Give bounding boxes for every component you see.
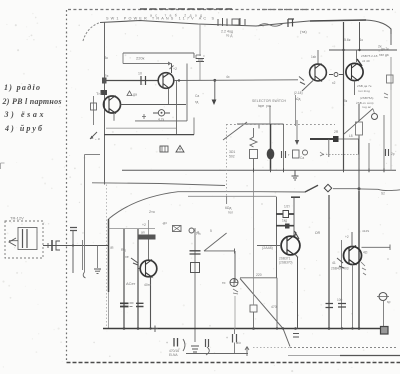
paper mark left edge — [1, 163, 5, 169]
input coupling cap — [70, 228, 77, 231]
capacitor right — [386, 149, 389, 156]
svg-text:10: 10 — [138, 72, 142, 76]
svg-text:Rд: Rд — [121, 248, 126, 252]
svg-text:(2А48): (2А48) — [262, 246, 273, 250]
svg-text:Са: Са — [195, 94, 199, 98]
svg-text:L8: L8 — [349, 134, 353, 138]
coupling between Q6 Q7 — [334, 73, 338, 77]
svg-text:220к: 220к — [136, 56, 145, 61]
svg-text:+: + — [226, 336, 228, 340]
resistor R21 zigzag — [250, 128, 257, 147]
svg-text:2R: 2R — [334, 130, 339, 134]
dotted y154.5 — [326, 154, 359, 156]
electrolytic C21 dark — [270, 124, 272, 170]
svg-text:то: то — [222, 281, 226, 285]
top ticks row — [109, 228, 156, 230]
Q7 top lead — [356, 50, 358, 62]
volume pot column — [93, 96, 95, 125]
wire: feedback arrow line — [123, 53, 172, 64]
bottom mid electro + jack — [174, 338, 178, 347]
transistor Q5 — [344, 247, 362, 265]
below bus cap — [293, 334, 299, 338]
svg-text:2р: 2р — [391, 152, 395, 156]
wire: Q2 collector up — [171, 64, 173, 74]
wire: y50 row — [329, 49, 397, 51]
pilot lamp circle — [372, 114, 378, 120]
cartridge — [18, 228, 37, 250]
svg-text:←с: ←с — [94, 136, 100, 141]
transistor Q1 — [104, 96, 121, 113]
base marks Q3 — [131, 258, 138, 265]
svg-text:2SB75 2-18: 2SB75 2-18 — [361, 54, 378, 58]
border left dashed — [66, 10, 68, 362]
svg-text:2SB405 403: 2SB405 403 — [331, 267, 349, 271]
paper speckle — [129, 57, 131, 59]
connector P1 on bus — [288, 19, 294, 27]
right edge column — [390, 34, 392, 45]
svg-text:ѕр: ѕр — [387, 300, 391, 304]
svg-text:+: + — [166, 341, 168, 345]
Q7 emitter — [354, 81, 356, 95]
border bottom dashed — [67, 362, 400, 364]
diode D1 — [158, 110, 164, 116]
resistor R23 — [293, 150, 300, 158]
Q4 top lead arrow — [295, 231, 300, 239]
svg-text:4) йруб: 4) йруб — [4, 124, 43, 133]
selector output arrow — [296, 120, 298, 141]
wire: v358 stub — [358, 139, 360, 155]
wire: mid bus y170 — [122, 169, 396, 171]
svg-text:(2-18): (2-18) — [294, 91, 303, 95]
speaker comp right — [379, 293, 387, 301]
Q6 top lead — [317, 50, 319, 64]
svg-text:1sb: 1sb — [311, 55, 316, 59]
border top dashed — [68, 9, 393, 11]
svg-text:41: 41 — [332, 261, 336, 265]
wire v369 — [368, 143, 370, 170]
wire: box mid — [106, 127, 176, 129]
svg-text:те д: те д — [226, 34, 232, 38]
svg-text:Са: Са — [300, 156, 304, 160]
svg-text:2) PB l партноѕ: 2) PB l партноѕ — [2, 97, 62, 106]
svg-text:/R: /R — [110, 246, 114, 250]
switch wiper S2b — [226, 196, 228, 204]
svg-text:тел: тел — [228, 211, 233, 215]
wire: bus y184.5 — [92, 183, 225, 186]
capacitor C22 — [283, 124, 285, 170]
tiny corner glyphs right of box — [196, 55, 203, 60]
svg-text:470: 470 — [271, 305, 277, 309]
svg-text:5к: 5к — [344, 99, 348, 103]
junction dots y50 row — [342, 49, 344, 51]
Q4 emitter — [295, 254, 298, 258]
junction ticks on mid bus — [254, 168, 385, 173]
svg-text:+2: +2 — [345, 235, 349, 239]
svg-text:тел 2год: тел 2год — [358, 89, 370, 93]
svg-text:S2: S2 — [381, 192, 385, 196]
svg-text:2то: 2то — [149, 210, 155, 214]
wire squiggle on bus — [258, 24, 283, 27]
svg-text:TR-12V: TR-12V — [10, 216, 24, 221]
svg-text:тд: тд — [195, 100, 198, 104]
svg-text:(2SB75А): (2SB75А) — [360, 96, 373, 100]
wire: network top — [237, 123, 284, 125]
switch diagonal right — [344, 109, 373, 135]
capacitor C4 column x200 — [199, 24, 201, 56]
wire: box right edge — [176, 81, 178, 135]
wire: selector feed drop — [214, 80, 216, 100]
Q3 emitter — [150, 277, 152, 329]
svg-text:1) радіо: 1) радіо — [4, 83, 40, 92]
svg-text:х2: х2 — [332, 81, 336, 85]
svg-text:ап: ап — [141, 231, 145, 235]
svg-text:tape pos: tape pos — [258, 104, 272, 108]
wire: row continues right — [174, 79, 298, 82]
wire: Q1 base row — [121, 104, 187, 106]
wire: input row y80 — [104, 80, 158, 82]
resistor dark bar — [138, 235, 156, 240]
svg-text:100: 100 — [337, 298, 343, 302]
wire: Q1 emitter — [113, 114, 115, 121]
svg-text:(2SB370): (2SB370) — [279, 261, 292, 265]
v384 — [383, 115, 385, 170]
long diagonal — [240, 279, 290, 347]
junction dots bottom bus — [149, 327, 360, 330]
wire y277.8 + v277 — [240, 277, 277, 279]
rails x124 x138 — [123, 229, 125, 329]
junction blob left rail — [102, 78, 107, 84]
ground stub x97 — [97, 246, 99, 269]
wire: thick y139 — [310, 138, 338, 140]
wire to rail — [67, 245, 108, 247]
v342 — [341, 240, 343, 329]
capacitor C2 on row — [141, 76, 146, 85]
svg-text:а2д: а2д — [295, 97, 301, 101]
svg-text:тед ас: тед ас — [362, 105, 371, 109]
svg-text:4.7к: 4.7к — [158, 118, 165, 122]
wire: top supply bus — [100, 20, 391, 34]
switch diagonal — [223, 122, 247, 140]
terminal square — [381, 327, 389, 335]
v329 — [328, 195, 330, 329]
node dot — [178, 79, 180, 81]
svg-text:тал да: тал да — [379, 53, 389, 57]
svg-text:5.6к: 5.6к — [344, 38, 351, 42]
v82 — [82, 240, 84, 270]
wire: long arc to y190.5 — [109, 186, 319, 220]
transistor Q7 — [346, 63, 363, 80]
svg-text:=: = — [387, 257, 389, 261]
marks — [142, 114, 146, 119]
svg-text:4Ω: 4Ω — [363, 251, 368, 255]
svg-text:1/2т: 1/2т — [284, 205, 290, 209]
switch S1 on bus — [218, 18, 245, 26]
boxed X label — [173, 226, 182, 232]
Q6 emitter diag — [302, 81, 313, 92]
svg-text:АСет: АСет — [126, 281, 136, 286]
svg-text:3Ω1: 3Ω1 — [229, 150, 235, 154]
arrowhead selector feed — [212, 100, 217, 106]
Q4 bias rails — [276, 197, 278, 278]
wire: Q2 emitter down — [168, 89, 170, 105]
svg-text:ΩR: ΩR — [315, 231, 321, 235]
bottom bus y328.5 — [103, 328, 381, 330]
column x235 — [234, 251, 236, 282]
component above Q1 — [101, 90, 108, 95]
resistor R32 bar — [276, 225, 294, 227]
transistor Q4 — [281, 236, 300, 255]
svg-text:3) ёѕах: 3) ёѕах — [4, 110, 44, 119]
caps on rails — [120, 303, 129, 306]
svg-text:≈: ≈ — [203, 54, 205, 58]
svg-text:SELECTOR SWITCH: SELECTOR SWITCH — [252, 99, 287, 103]
svg-text:Тг1: Тг1 — [96, 91, 103, 96]
Ca ring — [303, 150, 308, 155]
bottom wire y355 — [288, 355, 340, 357]
svg-text:Rх: Rх — [104, 74, 109, 78]
transistor Q2 — [158, 73, 174, 89]
strong vertical x108 — [108, 219, 110, 292]
svg-text:ELNA: ELNA — [169, 353, 178, 357]
wire: v270 top — [269, 106, 271, 124]
top-right verticals — [343, 22, 345, 170]
svg-text:хе: хе — [125, 255, 129, 259]
svg-text:4х: 4х — [226, 75, 230, 79]
svg-text:6Ωд: 6Ωд — [225, 206, 231, 210]
resistor R31 bar — [276, 213, 294, 215]
connector plug — [43, 245, 67, 247]
svg-text:220: 220 — [256, 273, 262, 277]
svg-text:х2 40: х2 40 — [362, 59, 370, 63]
svg-text:2SB да 7е: 2SB да 7е — [357, 84, 372, 88]
svg-text:40тп: 40тп — [144, 283, 151, 287]
wire: left rail — [104, 23, 106, 185]
below bus electrolytic — [233, 334, 237, 343]
warning triangle small — [127, 91, 132, 96]
svg-text:Ϊк: Ϊк — [105, 55, 108, 60]
wire: box bottom dark — [104, 134, 194, 136]
svg-text:-дз: -дз — [162, 221, 167, 225]
svg-text:(та): (та) — [300, 29, 307, 34]
wire: top-left curved lead — [83, 23, 100, 42]
transistor Q3 — [140, 260, 157, 277]
TP box label — [160, 146, 168, 152]
dotted link vertical — [226, 124, 228, 196]
svg-text:412S: 412S — [362, 229, 369, 233]
svg-text:т: т — [288, 153, 290, 157]
svg-text:1к: 1к — [360, 38, 364, 42]
column x195 — [194, 228, 196, 342]
svg-text:502: 502 — [229, 155, 235, 159]
svg-text:да: да — [133, 93, 137, 97]
svg-text:1кд: 1кд — [282, 219, 287, 223]
svg-text:2к: 2к — [378, 45, 382, 49]
svg-text:Г%: Г% — [196, 232, 201, 236]
wire: inner row y120.7 — [135, 120, 187, 122]
fuse diamond on line — [324, 184, 331, 191]
svg-text:а/с: а/с — [236, 341, 241, 345]
warning triangle TP — [176, 146, 184, 153]
svg-text:+2: +2 — [142, 223, 146, 227]
ground at 295 — [294, 170, 296, 176]
battery marks bottom — [191, 346, 199, 352]
v359 column — [356, 122, 363, 135]
wire: box top — [123, 53, 194, 58]
dotted link horizontal — [226, 124, 335, 126]
svg-text:+2: +2 — [173, 67, 177, 71]
transistor Q6 — [310, 64, 327, 81]
short column x253 — [250, 305, 257, 312]
svg-text:5: 5 — [210, 229, 212, 233]
left input: dashed box — [5, 221, 43, 258]
